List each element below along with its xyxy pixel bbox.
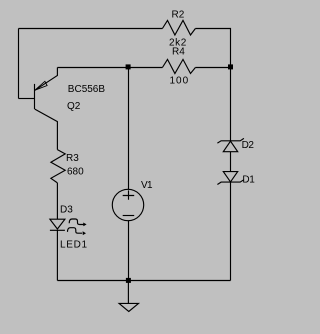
diode D1 triangle [223,172,237,182]
svg-text:680: 680 [67,167,84,178]
LED D3 triangle [50,219,65,229]
wire bottom rail [57,280,230,282]
svg-text:R3: R3 [66,153,79,164]
svg-text:R4: R4 [172,47,185,58]
wire between D2 and D1 [230,152,232,172]
svg-text:D3: D3 [60,205,73,216]
junction dot ground [126,278,131,283]
svg-text:Q2: Q2 [67,101,81,112]
wire right rail lower segment [230,182,232,280]
junction dot V1 top [126,64,131,69]
svg-text:D1: D1 [242,174,255,185]
svg-text:D2: D2 [242,140,255,151]
wire R3 to LED [56,183,58,219]
LED D3 emission arrow 2 [68,228,83,234]
wire R4 line from emitter corner to zigzag [57,67,162,69]
wire LED to bottom rail [56,230,58,280]
diode D2 triangle [223,141,237,152]
V1 plus sign [123,190,135,199]
wire top rail right segment and right rail down to D2 [195,29,230,141]
wire top rail left segment [19,28,163,30]
svg-text:V1: V1 [141,180,153,191]
resistor R4 [162,59,195,73]
wire left rail [18,29,20,99]
wire base lead [19,98,35,100]
resistor R2 [162,20,195,35]
wire V1 top [128,68,130,190]
svg-text:R2: R2 [172,10,185,21]
diode D2 zener bar [217,138,244,143]
transistor Q2 emitter arrow [35,81,47,90]
svg-text:BC556B: BC556B [68,84,106,95]
transistor Q2 base bar [34,84,36,109]
LED D3 emission arrow 2 head [83,231,86,235]
wire V1 bottom [128,221,130,281]
junction dot right rail [228,64,233,69]
LED D3 emission arrow 1 head [83,223,86,227]
diode D1 zener bar [217,180,244,185]
LED D3 emission arrow 1 [69,219,84,225]
transistor Q2 collector lead [35,109,58,150]
svg-text:100: 100 [170,76,190,87]
LED D3 cathode bar [50,229,65,231]
voltage source V1 circle [112,189,143,220]
V1 minus sign [123,215,135,217]
transistor Q2 emitter lead [35,68,58,91]
wire to ground [127,281,129,304]
resistor R3 [51,150,65,183]
wire R4 to right rail [195,67,230,69]
svg-text:LED1: LED1 [60,239,88,250]
ground symbol [119,303,138,311]
